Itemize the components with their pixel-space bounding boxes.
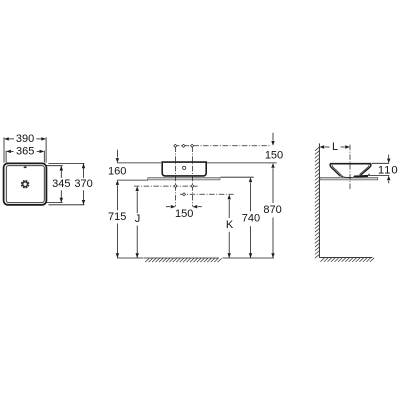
svg-text:150: 150	[265, 149, 283, 161]
svg-text:J: J	[135, 213, 141, 225]
svg-text:345: 345	[52, 178, 70, 190]
svg-text:370: 370	[74, 178, 92, 190]
svg-text:715: 715	[108, 211, 126, 223]
svg-text:870: 870	[263, 204, 281, 216]
svg-text:K: K	[226, 219, 234, 231]
svg-text:160: 160	[108, 165, 126, 177]
svg-text:L: L	[332, 141, 338, 153]
svg-text:740: 740	[242, 213, 260, 225]
svg-text:390: 390	[16, 133, 34, 145]
svg-text:365: 365	[16, 146, 34, 158]
svg-text:110: 110	[378, 164, 399, 176]
svg-text:150: 150	[175, 208, 193, 220]
